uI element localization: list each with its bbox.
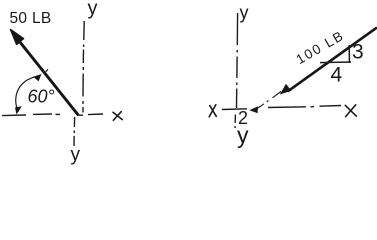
x-axis (left figure, dash-dot) bbox=[2, 114, 103, 116]
tick across vector at arc end bbox=[44, 69, 49, 74]
line of action arrowhead (small, at x-axis) bbox=[249, 106, 258, 113]
arc arrowhead upper (at vector) bbox=[34, 74, 42, 82]
force vector F2 arrowhead bbox=[280, 84, 292, 95]
x-axis label (left) bbox=[113, 112, 122, 121]
svg-text:2: 2 bbox=[238, 108, 248, 128]
svg-text:50 LB: 50 LB bbox=[10, 10, 52, 27]
y-axis (right figure, dash-dot) bbox=[235, 13, 238, 128]
x-axis label left (right figure) bbox=[209, 105, 216, 117]
svg-text:y: y bbox=[240, 2, 249, 22]
x-axis (right figure, dash-dot) bbox=[222, 106, 341, 110]
angle arc 60 deg bbox=[16, 75, 40, 111]
svg-text:y: y bbox=[71, 144, 81, 165]
force vector F1 arrowhead bbox=[11, 30, 24, 45]
label 100 LB (rotated along vector) bbox=[294, 28, 347, 67]
y-axis (left figure, dash-dot, upper part) bbox=[83, 21, 84, 113]
x-axis label right (right figure) bbox=[345, 105, 356, 117]
force vector F2 100 lb (shaft) bbox=[289, 28, 377, 91]
arc arrowhead lower (on x-axis) bbox=[15, 106, 22, 114]
y-axis (left figure, lower part) bbox=[73, 117, 76, 146]
slope triangle horizontal leg (4) bbox=[320, 61, 351, 64]
svg-text:4: 4 bbox=[331, 64, 343, 87]
force vector F1 50 lb (shaft) bbox=[20, 42, 78, 115]
svg-text:60°: 60° bbox=[28, 87, 55, 107]
svg-text:y: y bbox=[88, 0, 98, 20]
line of action extension (dash-dot) bbox=[258, 92, 281, 109]
svg-text:3: 3 bbox=[352, 41, 364, 64]
slope triangle vertical leg (3) bbox=[348, 45, 350, 63]
